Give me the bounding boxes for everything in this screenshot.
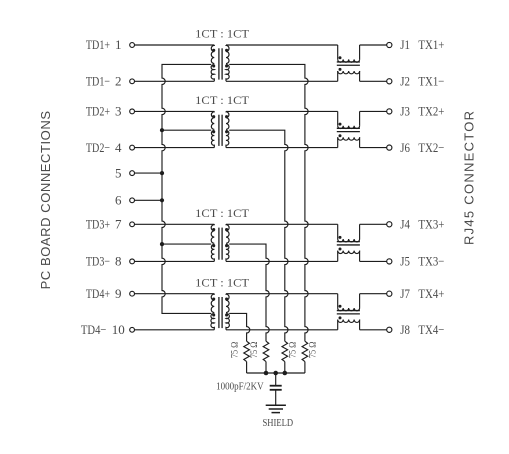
- svg-text:TX1+: TX1+: [418, 37, 444, 52]
- wire termination rail: [247, 372, 305, 374]
- pin 9 (TD4+): [86, 286, 135, 301]
- pin J8 TX4&#8722;: [387, 322, 445, 337]
- transformer T1: [211, 45, 229, 81]
- svg-text:TD3+: TD3+: [86, 217, 110, 232]
- svg-text:75 Ω: 75 Ω: [287, 341, 297, 358]
- wire T2 secondary top to choke L2: [226, 110, 338, 112]
- junction dot T3 primary CT: [160, 242, 164, 246]
- svg-text:TX2+: TX2+: [418, 104, 444, 119]
- pin J4 TX3+: [387, 217, 445, 232]
- pin 1 (TD1+): [86, 37, 135, 52]
- choke L1: [337, 45, 360, 81]
- wire choke L3 to J5: [360, 260, 387, 262]
- wire T1 secondary bottom to choke L1: [226, 80, 338, 82]
- pin 4 (TD2&#8722;): [86, 140, 135, 155]
- junction dot T2 primary CT: [160, 128, 164, 132]
- junction dot pin 6: [160, 198, 164, 202]
- svg-text:1CT : 1CT: 1CT : 1CT: [195, 95, 249, 107]
- choke L3: [337, 224, 360, 261]
- svg-text:J7: J7: [400, 286, 410, 301]
- svg-text:4: 4: [115, 140, 122, 155]
- wire T2 secondary bottom to choke L2: [226, 147, 338, 149]
- resistor R4 75 Ohm: [302, 341, 308, 373]
- pin J5 TX3&#8722;: [387, 254, 445, 269]
- wire T1 secondary center tap to termination resistor: [229, 64, 308, 341]
- transformer T2: [211, 111, 229, 147]
- svg-text:RJ45 CONNECTOR: RJ45 CONNECTOR: [461, 111, 476, 245]
- junction dot rail cap: [273, 371, 278, 376]
- wire T3 primary center tap: [162, 243, 211, 245]
- svg-text:TX4+: TX4+: [418, 286, 444, 301]
- pin 6 (NC): [115, 193, 135, 208]
- svg-text:9: 9: [115, 286, 122, 301]
- svg-text:6: 6: [115, 193, 122, 208]
- wire pin 1.. T1 primary top: [135, 44, 215, 46]
- wire choke L2 to J3: [360, 110, 387, 112]
- svg-text:75 Ω: 75 Ω: [230, 341, 240, 358]
- wire T2 primary bottom: [135, 147, 215, 149]
- pin J6 TX2&#8722;: [387, 140, 445, 155]
- wire T4 secondary top to choke L4: [226, 293, 338, 295]
- pin J1 TX1+: [387, 37, 445, 52]
- svg-text:TX2−: TX2−: [418, 140, 444, 155]
- wire T3 primary bottom: [135, 260, 215, 262]
- wire T2 secondary center tap to termination resistor: [229, 130, 288, 341]
- wire T3 secondary center tap to termination resistor: [229, 244, 269, 341]
- wire T2 primary center tap: [162, 129, 211, 131]
- svg-text:TX1−: TX1−: [418, 74, 444, 89]
- svg-text:75 Ω: 75 Ω: [249, 341, 259, 358]
- pin 2 (TD1&#8722;): [86, 74, 135, 89]
- pin 10 (TD4&#8722;): [81, 322, 135, 337]
- wire T3 secondary bottom to choke L3: [226, 260, 338, 262]
- pin 3 (TD2+): [86, 104, 135, 119]
- resistor R2 75 Ohm: [263, 341, 269, 373]
- svg-text:TD1−: TD1−: [86, 74, 110, 89]
- pin J2 TX1&#8722;: [387, 74, 445, 89]
- svg-text:TD4−: TD4−: [81, 322, 107, 337]
- wire choke L1 to J2: [360, 80, 387, 82]
- ground (SHIELD): [266, 405, 286, 412]
- wire/bus: primary center taps + pins 5,6 (node CT-P): [162, 64, 211, 313]
- wire choke L1 to J1: [360, 44, 387, 46]
- junction dot rail R3: [283, 371, 288, 376]
- svg-text:J1: J1: [400, 37, 410, 52]
- svg-text:TD2−: TD2−: [86, 140, 110, 155]
- svg-text:J6: J6: [400, 140, 410, 155]
- svg-text:1CT : 1CT: 1CT : 1CT: [195, 29, 249, 41]
- pin J7 TX4+: [387, 286, 445, 301]
- wire T1 secondary top to choke L1: [226, 44, 338, 46]
- wire T1 primary bottom: [135, 80, 215, 82]
- svg-text:2: 2: [115, 74, 122, 89]
- pin J3 TX2+: [387, 104, 445, 119]
- wire T4 primary bottom: [135, 329, 215, 331]
- wire rail to capacitor: [275, 373, 277, 385]
- choke L2: [337, 111, 360, 147]
- pin 5 (NC): [115, 165, 135, 180]
- capacitor C1 1000pF/2KV: [270, 386, 282, 390]
- svg-text:1CT : 1CT: 1CT : 1CT: [195, 208, 249, 220]
- wire pin 3.. T2 primary top: [135, 110, 215, 112]
- svg-text:J4: J4: [400, 217, 410, 232]
- svg-text:TD2+: TD2+: [86, 104, 110, 119]
- wire pin 6 to primary CT bus: [135, 199, 163, 201]
- junction dot pin 5: [160, 171, 164, 175]
- svg-text:7: 7: [115, 217, 122, 232]
- svg-text:3: 3: [115, 104, 122, 119]
- wire pin 7.. T3 primary top: [135, 223, 215, 225]
- svg-text:TX3+: TX3+: [418, 217, 444, 232]
- wire capacitor to ground: [275, 390, 277, 405]
- resistor R1 75 Ohm: [244, 341, 250, 373]
- svg-text:TX3−: TX3−: [418, 254, 444, 269]
- wire T4 secondary center tap to termination resistor: [229, 313, 250, 341]
- svg-text:TD3−: TD3−: [86, 254, 110, 269]
- svg-text:10: 10: [112, 322, 125, 337]
- wire pin 5 to primary CT bus: [135, 172, 163, 174]
- svg-text:J5: J5: [400, 254, 410, 269]
- wire pin 9.. T4 primary top: [135, 293, 215, 295]
- wire choke L3 to J4: [360, 223, 387, 225]
- svg-text:J2: J2: [400, 74, 410, 89]
- transformer T3: [211, 224, 229, 261]
- svg-text:5: 5: [115, 165, 122, 180]
- svg-text:8: 8: [115, 254, 122, 269]
- junction dot rail R2: [264, 371, 269, 376]
- wire choke L2 to J6: [360, 147, 387, 149]
- choke L4: [337, 294, 360, 330]
- svg-text:1000pF/2KV: 1000pF/2KV: [216, 382, 264, 393]
- wire choke L4 to J8: [360, 329, 387, 331]
- wire choke L4 to J7: [360, 293, 387, 295]
- svg-text:1CT : 1CT: 1CT : 1CT: [195, 277, 249, 289]
- svg-text:TD4+: TD4+: [86, 286, 110, 301]
- svg-text:TD1+: TD1+: [86, 37, 110, 52]
- resistor R3 75 Ohm: [282, 341, 288, 373]
- wire T4 secondary bottom to choke L4: [226, 329, 338, 331]
- wire T3 secondary top to choke L3: [226, 223, 338, 225]
- svg-text:1: 1: [115, 37, 122, 52]
- svg-text:75 Ω: 75 Ω: [308, 341, 318, 358]
- pin 7 (TD3+): [86, 217, 135, 232]
- svg-text:J3: J3: [400, 104, 410, 119]
- pin 8 (TD3&#8722;): [86, 254, 135, 269]
- svg-text:PC BOARD CONNECTIONS: PC BOARD CONNECTIONS: [38, 111, 53, 290]
- transformer T4: [211, 294, 230, 330]
- svg-text:SHIELD: SHIELD: [263, 418, 294, 429]
- svg-text:TX4−: TX4−: [418, 322, 444, 337]
- svg-text:J8: J8: [400, 322, 410, 337]
